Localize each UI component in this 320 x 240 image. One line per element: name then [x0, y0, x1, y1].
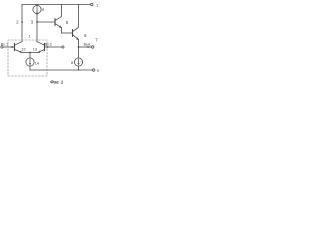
wire source-4 vertical bottom (conductor 3): [36, 14, 38, 42]
node bottom rail / source 8: [78, 69, 80, 71]
transistor Q13: [44, 43, 46, 50]
wire down to source 8: [78, 47, 80, 58]
wire base of Q5: [37, 21, 55, 23]
svg-text:6: 6: [84, 33, 87, 38]
current source 4: [33, 5, 41, 13]
wire top rail: [22, 4, 91, 6]
wire output: [79, 46, 92, 48]
terminal top right: [91, 3, 93, 5]
wire input 1 to Q12 base: [3, 46, 15, 48]
dashed box IC 11: [8, 40, 47, 76]
svg-text:3: 3: [31, 20, 34, 25]
terminal bottom right: [93, 69, 95, 71]
svg-text:1: 1: [29, 33, 32, 38]
wire source 14 to bottom rail corner: [29, 66, 31, 70]
svg-text:8: 8: [71, 61, 73, 65]
wire left vertical (conductor 2): [21, 5, 23, 42]
svg-text:Вх.2: Вх.2: [45, 42, 52, 46]
wire base of Q6: [62, 32, 73, 34]
transistor Q12: [14, 43, 16, 50]
svg-text:1: 1: [96, 2, 99, 7]
node output junction: [78, 46, 80, 48]
svg-text:5: 5: [66, 20, 69, 25]
wire bottom rail: [30, 69, 92, 71]
wire source 8 to bottom rail: [78, 66, 80, 70]
svg-text:2: 2: [16, 20, 19, 25]
wire source-4 vertical top stub: [36, 4, 38, 7]
svg-text:14: 14: [35, 62, 39, 66]
node at 37,22: [36, 21, 38, 23]
wire bus down to source 14: [29, 53, 31, 58]
svg-text:9: 9: [97, 69, 99, 73]
transistor Q6: [72, 30, 74, 37]
svg-text:4: 4: [42, 7, 45, 12]
svg-text:Фиг. 1: Фиг. 1: [50, 79, 64, 84]
wire emitters bus of pair: [22, 52, 38, 54]
wire Q6 emitter down to output node: [78, 40, 80, 47]
wire Q5 emitter down: [61, 28, 63, 33]
node emitters junction: [29, 52, 31, 54]
svg-text:12: 12: [21, 47, 25, 51]
svg-text:13: 13: [33, 48, 37, 52]
current source 8: [74, 58, 82, 66]
wire Q13 base to input 2: [45, 46, 62, 48]
terminal input 2: [62, 46, 64, 48]
node at 22,22: [21, 21, 23, 23]
terminal output 7: [92, 46, 94, 48]
svg-text:Вых.: Вых.: [84, 42, 92, 46]
current source 14: [26, 58, 34, 66]
terminal input 1: [1, 46, 3, 48]
transistor Q5: [54, 19, 56, 26]
svg-text:Вх.1: Вх.1: [1, 42, 8, 46]
svg-text:7: 7: [95, 37, 98, 42]
